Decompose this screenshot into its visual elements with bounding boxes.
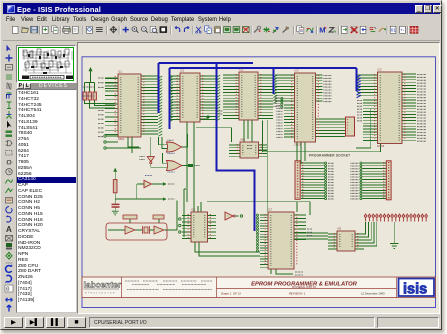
svg-text:isis: isis <box>403 282 427 298</box>
svg-text:IC2: IC2 <box>180 69 185 73</box>
svg-text:62256: 62256 <box>377 144 385 148</box>
svg-text:IC8: IC8 <box>337 227 342 231</box>
svg-text:01: 01 <box>391 28 397 33</box>
svg-text:IC1: IC1 <box>118 70 123 74</box>
svg-text:U8A: U8A <box>240 138 245 142</box>
svg-text:IC3: IC3 <box>239 68 244 72</box>
svg-text:CPU/SERIAL PORT I/O: CPU/SERIAL PORT I/O <box>292 286 316 289</box>
svg-text:REVISION 1: REVISION 1 <box>289 292 306 296</box>
svg-text:electronics: electronics <box>85 291 116 295</box>
svg-text:27128: 27128 <box>294 143 302 147</box>
svg-text:0: 0 <box>6 286 10 293</box>
svg-text:IC7: IC7 <box>268 208 273 212</box>
svg-text:labcenter: labcenter <box>84 280 122 290</box>
svg-text:PROGRAMMER SOCKET: PROGRAMMER SOCKET <box>309 153 350 157</box>
svg-text:IC5: IC5 <box>378 68 383 72</box>
svg-text:Z80A: Z80A <box>118 137 124 141</box>
svg-text:11 December 1993: 11 December 1993 <box>361 292 385 296</box>
svg-text:+-: +- <box>400 28 405 33</box>
svg-text:IC4: IC4 <box>295 69 300 73</box>
svg-text:Drawn 1 OF 13: Drawn 1 OF 13 <box>221 292 241 296</box>
svg-text:A: A <box>6 225 12 234</box>
svg-text:IC6: IC6 <box>191 208 196 212</box>
